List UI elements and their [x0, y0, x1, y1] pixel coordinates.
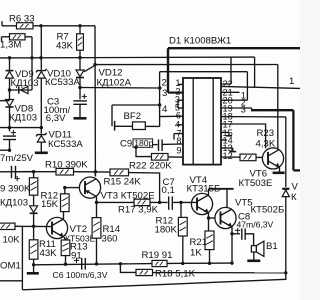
- svg-text:R6 33: R6 33: [9, 14, 35, 25]
- wire: [0, 149, 11, 152]
- pin 6: [160, 110, 183, 120]
- resistor R11: [29, 226, 38, 264]
- wire base VT3: [65, 187, 80, 189]
- svg-text:4: 4: [162, 104, 168, 115]
- svg-text:ОМ1: ОМ1: [0, 260, 21, 271]
- pin 7: [174, 129, 183, 140]
- node: [63, 186, 66, 189]
- svg-text:9: 9: [176, 146, 181, 156]
- label R6 33: [9, 14, 35, 25]
- wire pin19 thick: [221, 108, 300, 170]
- node: [158, 201, 161, 204]
- svg-text:1K: 1K: [190, 247, 202, 258]
- svg-text:V: V: [292, 182, 299, 193]
- svg-text:43K: 43K: [40, 248, 58, 259]
- pin 9: [176, 146, 181, 156]
- capacitor C3: [73, 88, 87, 118]
- node step2: [241, 98, 246, 108]
- diode VD10: [36, 69, 46, 78]
- diode VD14: [282, 189, 289, 197]
- pin 22: [223, 79, 233, 89]
- pin 14: [223, 136, 233, 146]
- resistor R7: [77, 26, 84, 70]
- label R14 360: [102, 224, 121, 245]
- wire net C: [160, 71, 248, 73]
- label R9 390K: [0, 183, 31, 194]
- label R11 43K: [39, 239, 57, 259]
- capacitor C9: [153, 139, 183, 151]
- svg-text:B1: B1: [266, 241, 278, 252]
- wire: [0, 226, 22, 289]
- svg-text:0,1: 0,1: [162, 185, 175, 196]
- wire collector VT4: [208, 189, 210, 195]
- wire: [167, 261, 234, 264]
- svg-text:КС533А: КС533А: [45, 77, 80, 88]
- wire emitter VT4: [208, 213, 210, 231]
- wire rectA right: [254, 57, 256, 88]
- svg-text:7m/25V: 7m/25V: [0, 153, 34, 164]
- resistor R23: [240, 154, 256, 161]
- wire pin20: [221, 72, 247, 101]
- ground: [247, 259, 260, 262]
- svg-text:C6 100m/6,3V: C6 100m/6,3V: [53, 270, 108, 280]
- pin 4: [175, 119, 183, 129]
- svg-text:КС533A: КС533A: [48, 139, 83, 150]
- svg-text:180K: 180K: [155, 224, 178, 235]
- label C8 47m/6,3V: [237, 212, 274, 230]
- wire emitter VT6: [279, 167, 281, 171]
- node: [284, 271, 287, 274]
- wire: [9, 78, 11, 99]
- resistor R5 1,3M: [2, 34, 33, 42]
- svg-text:R15 24K: R15 24K: [104, 176, 142, 187]
- label R22 220K: [129, 160, 172, 171]
- wire: [74, 171, 111, 173]
- svg-text:1,3М: 1,3М: [0, 40, 21, 51]
- diode VD9: [6, 71, 14, 79]
- plus: [15, 176, 20, 181]
- transistor VT3: [79, 177, 100, 198]
- pin 13 stub: [221, 148, 236, 152]
- wire: [33, 195, 35, 206]
- svg-text:КД103: КД103: [9, 113, 37, 124]
- resistor R6: [17, 23, 34, 29]
- svg-text:43K: 43K: [56, 41, 74, 52]
- node net4: [162, 104, 168, 115]
- label C3 100m/6,3V: [44, 97, 71, 124]
- pin 15: [223, 128, 233, 138]
- wire: [0, 100, 10, 102]
- wire net1: [221, 86, 300, 88]
- label R12 180K: [155, 215, 178, 235]
- capacitor C2 47m: [3, 136, 16, 150]
- capacitor C7: [169, 196, 173, 209]
- wire pin17: [221, 124, 266, 148]
- wire: [0, 126, 43, 129]
- resistor R21: [205, 231, 214, 263]
- label VD11 КС533A: [48, 130, 83, 151]
- resistor R15: [110, 169, 129, 176]
- label VD9 КД103: [11, 69, 39, 89]
- capacitor C8: [242, 228, 245, 239]
- label R10 390K: [45, 159, 88, 170]
- node net2: [162, 78, 167, 89]
- node: [78, 86, 161, 90]
- wire collector VT6: [277, 65, 279, 150]
- svg-text:3: 3: [162, 88, 167, 99]
- svg-text:1: 1: [289, 76, 294, 87]
- resistor R17: [134, 199, 150, 205]
- svg-text:2: 2: [162, 78, 167, 89]
- label R17 3,9K: [118, 205, 159, 216]
- wire: [97, 201, 135, 203]
- wire net 3: [80, 87, 160, 90]
- plus: [235, 228, 240, 233]
- svg-text:КД103: КД103: [11, 78, 39, 89]
- wire collector VT3: [94, 172, 96, 177]
- label 10K: [3, 235, 21, 246]
- node step1: [241, 90, 246, 100]
- wire: [111, 105, 113, 126]
- resistor R22: [152, 154, 169, 161]
- transistor VT2: [46, 217, 67, 238]
- svg-text:КТ502Б: КТ502Б: [251, 205, 285, 216]
- wire: [10, 58, 33, 90]
- wire: [9, 108, 11, 132]
- capacitor C9 value box: [133, 138, 154, 148]
- speaker B1: [251, 241, 264, 256]
- label C6 100m/6,3V: [53, 270, 108, 280]
- node: [8, 126, 11, 129]
- label VT4 КТ315Б: [187, 175, 221, 195]
- node net1 label: [289, 76, 294, 87]
- pin 5: [175, 102, 183, 112]
- wire: [256, 156, 262, 158]
- wire R18 branch: [120, 264, 136, 273]
- node: [32, 263, 35, 266]
- diode VD6: [19, 86, 28, 93]
- node: [64, 262, 211, 266]
- ground: [74, 117, 87, 120]
- piezo BF2: [115, 121, 160, 131]
- wire bottom frame: [22, 273, 285, 290]
- svg-text:D1 К1008ВЖ1: D1 К1008ВЖ1: [169, 36, 231, 47]
- svg-text:360: 360: [102, 234, 118, 245]
- node net3: [162, 88, 167, 99]
- node: [179, 201, 182, 204]
- label C9: [120, 139, 132, 150]
- label VT6 КТ503Е: [239, 169, 273, 189]
- resistor R19: [152, 260, 167, 266]
- svg-text:47m/6,3V: 47m/6,3V: [237, 220, 274, 230]
- ground: [35, 152, 48, 155]
- transistor VT4: [191, 193, 212, 214]
- label 1,3М: [0, 40, 21, 51]
- svg-text:15K: 15K: [41, 199, 59, 210]
- node: [95, 201, 98, 204]
- wire: [232, 233, 240, 235]
- node: [94, 170, 97, 173]
- wire base VT2: [15, 225, 52, 227]
- wire pin22: [221, 57, 231, 84]
- wire thick supply: [168, 48, 300, 92]
- label VD12 КД102А: [97, 68, 132, 89]
- ground: [273, 172, 285, 175]
- label BM1: [0, 260, 21, 271]
- pin 21: [223, 87, 233, 97]
- pin 18: [223, 112, 233, 122]
- capacitor C4: [12, 166, 16, 178]
- svg-text:КД102А: КД102А: [97, 77, 132, 88]
- wire bus A: [0, 56, 255, 59]
- node step3: [241, 104, 246, 114]
- wire rail: [209, 188, 234, 190]
- wire pin12: [221, 156, 240, 158]
- svg-text:6,3V: 6,3V: [46, 113, 66, 124]
- svg-text:R19 91: R19 91: [142, 250, 173, 261]
- wire bottom bus: [34, 264, 152, 265]
- label VD8 КД103: [9, 104, 37, 124]
- node: [230, 232, 233, 235]
- node: [134, 146, 137, 149]
- label 47m/25V: [0, 153, 34, 164]
- wire: [31, 37, 33, 58]
- resistor R12b 180K: [178, 202, 187, 263]
- svg-text:R10 390K: R10 390K: [45, 159, 88, 170]
- pin 12: [223, 151, 233, 161]
- label VT3 КТ502Е: [101, 191, 155, 202]
- svg-text:R18 5,1K: R18 5,1K: [155, 269, 196, 280]
- label R13 91: [70, 242, 88, 262]
- transistor VT6: [262, 148, 283, 169]
- pin 8: [176, 136, 181, 146]
- diode VD11: [36, 133, 46, 142]
- resistor R12: [61, 188, 70, 212]
- pin 13: [223, 143, 233, 153]
- wire: [285, 197, 287, 273]
- svg-text:КТ503Е: КТ503Е: [239, 178, 273, 189]
- pin 15 stub: [221, 132, 232, 135]
- wire: [253, 252, 255, 260]
- wire: [94, 26, 96, 177]
- wire net4 vert: [159, 72, 161, 127]
- resistor R18: [136, 269, 153, 275]
- label BF2: [124, 111, 142, 122]
- resistor R13: [61, 237, 70, 264]
- wire: [84, 66, 95, 72]
- wire: [40, 26, 42, 134]
- node A: [39, 24, 81, 27]
- resistor R9: [29, 172, 37, 196]
- diode VD8: [6, 100, 14, 108]
- label R19 91: [142, 250, 173, 261]
- wire: [150, 201, 168, 203]
- wire bus C: [0, 171, 34, 173]
- wire: [226, 189, 228, 208]
- svg-text:К: К: [291, 192, 297, 203]
- wire: [79, 78, 81, 88]
- wire net4: [112, 103, 161, 106]
- label R21 1K: [190, 237, 208, 258]
- node: [32, 170, 35, 173]
- wire: [136, 147, 152, 156]
- svg-text:R22 220K: R22 220K: [129, 160, 172, 171]
- wire collector VT2: [63, 212, 65, 219]
- wire: [153, 272, 286, 274]
- plus: [74, 258, 79, 263]
- label R7 43K: [56, 32, 74, 52]
- pin 3: [175, 94, 183, 108]
- label R12 15K: [41, 190, 59, 210]
- label R15 24K: [104, 176, 142, 187]
- wire net 2: [95, 64, 278, 66]
- label VD14: [291, 182, 299, 203]
- label D1 К1008ВЖ1: [169, 36, 231, 47]
- label B1: [266, 241, 278, 252]
- pin 19: [223, 104, 233, 114]
- op-amp U1 body: [183, 78, 221, 165]
- label C7 0,1: [162, 177, 175, 196]
- svg-text:R21: R21: [190, 237, 208, 248]
- label VT5 КТ502Б: [235, 197, 284, 215]
- svg-text:10K: 10K: [3, 235, 21, 246]
- wire: [32, 213, 35, 228]
- wire: [16, 171, 57, 173]
- wire top bus: [2, 21, 95, 26]
- wire: [245, 234, 253, 246]
- wire: [168, 156, 183, 158]
- svg-text:C9: C9: [120, 139, 132, 150]
- wire: [40, 142, 42, 152]
- resistor R10: [56, 168, 74, 175]
- wire: [9, 58, 11, 70]
- diode VD12: [76, 70, 84, 78]
- ground: [27, 265, 39, 274]
- capacitor C6: [82, 258, 86, 270]
- wire emitter VT3: [96, 197, 98, 218]
- svg-text:КД103: КД103: [0, 197, 28, 208]
- label КД103: [0, 197, 28, 208]
- svg-text:BF2: BF2: [124, 111, 142, 122]
- label R18 5,1K: [155, 269, 196, 280]
- wire emitter VT5: [231, 227, 233, 263]
- svg-text:9 390K: 9 390K: [0, 183, 31, 194]
- resistor R8: [0, 223, 15, 229]
- wire: [173, 201, 197, 203]
- wire pin21: [221, 91, 240, 93]
- wire base VT5: [209, 217, 216, 219]
- diode VD13: [30, 206, 38, 214]
- label VT2 КТ503Е: [65, 224, 96, 244]
- node: [8, 88, 11, 91]
- pin 1: [175, 78, 183, 88]
- svg-text:R23: R23: [257, 128, 275, 139]
- svg-text:R17 3,9K: R17 3,9K: [118, 205, 159, 216]
- pin 2: [175, 87, 180, 97]
- pin 14 stub: [221, 139, 227, 141]
- resistor R14: [92, 218, 101, 264]
- pin 17: [223, 120, 233, 130]
- node: [207, 216, 210, 219]
- wire pin18: [221, 117, 286, 187]
- node: [93, 63, 96, 66]
- label R23 4,3K: [256, 128, 276, 149]
- plus: [11, 130, 16, 135]
- pin 20: [223, 96, 233, 106]
- svg-text:3: 3: [241, 104, 246, 114]
- wire: [129, 173, 160, 203]
- node: [8, 56, 82, 60]
- transistor VT5: [215, 207, 236, 228]
- label VD10 КС533А: [45, 69, 80, 89]
- plus: [82, 94, 87, 99]
